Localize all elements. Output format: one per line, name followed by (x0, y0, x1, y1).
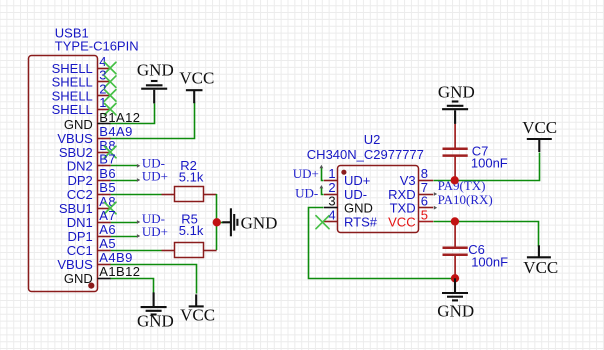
no-connect flag pin 3 (104, 76, 116, 88)
wire DN1 A7 to UD- (111, 222, 138, 224)
svg-text:CH340N_C2977777: CH340N_C2977777 (307, 147, 424, 162)
junction dot R2/R5/GND (213, 218, 221, 226)
no-connect flag pin 4 (104, 62, 116, 74)
wire CC1 A5 to R5 (111, 250, 162, 252)
U2 pin 8 V3 (400, 166, 434, 188)
svg-text:A7: A7 (99, 208, 116, 223)
svg-text:UD+: UD+ (142, 224, 168, 239)
svg-text:VBUS: VBUS (57, 131, 93, 146)
svg-text:DN2: DN2 (67, 159, 93, 174)
svg-text:4: 4 (328, 207, 335, 222)
U2 pin 3 GND (324, 194, 373, 216)
svg-text:VBUS: VBUS (57, 257, 93, 272)
net label arrow UD+ (B6) (137, 178, 140, 182)
IC U2 body (338, 166, 419, 233)
U2 pin 1 UD+ (324, 166, 370, 188)
pin SHELL 1 (USB1) (52, 95, 111, 117)
svg-text:UD-: UD- (295, 186, 318, 201)
capacitor C7 (443, 124, 468, 181)
pin SHELL 3 (USB1) (52, 68, 111, 90)
svg-text:B7: B7 (99, 152, 116, 167)
svg-text:GND: GND (137, 312, 174, 331)
resistor R5 (162, 243, 217, 258)
svg-text:A6: A6 (99, 222, 116, 237)
no-connect flag pin 1 (104, 103, 116, 115)
svg-text:VCC: VCC (180, 306, 215, 325)
svg-text:TYPE-C16PIN: TYPE-C16PIN (55, 38, 139, 53)
svg-text:A5: A5 (99, 236, 116, 251)
net label arrow PA10(RX) (434, 206, 437, 210)
power flag GND (top left) (137, 60, 174, 103)
svg-text:5.1k: 5.1k (179, 170, 204, 185)
junction dot at USB1 GND (88, 283, 94, 289)
U2 pin 5 VCC (388, 207, 433, 229)
wire U2 pin5 to VCC/C6 (434, 222, 539, 247)
pin VBUS B4A9 (USB1) (57, 124, 132, 146)
wire DP1 A6 to UD+ (111, 236, 138, 238)
power flag VCC (top right) (522, 118, 557, 152)
svg-text:B1A12: B1A12 (99, 110, 140, 125)
net label arrow PA9(TX) (434, 192, 437, 196)
svg-text:GND: GND (137, 60, 174, 79)
svg-text:CC1: CC1 (67, 243, 93, 258)
pin DN1 A7 (USB1) (67, 208, 116, 230)
svg-text:100nF: 100nF (471, 156, 508, 171)
net label arrow UD+ (U2.1) (320, 165, 324, 168)
svg-text:VCC: VCC (179, 69, 214, 88)
U2 pin-1 mark (341, 170, 346, 175)
junction dot VCC/C6 (451, 217, 459, 225)
power flag GND (bottom right) (437, 278, 474, 320)
wire VBUS B4A9 to top VCC (111, 103, 195, 139)
power flag VCC (bottom right) (523, 245, 558, 277)
svg-text:SBU1: SBU1 (59, 201, 93, 216)
svg-text:UD+: UD+ (142, 169, 168, 184)
wire U2 pin1 to UD+ (322, 167, 324, 181)
power flag GND (middle, sideways) (222, 208, 277, 236)
power flag GND (bottom left) (137, 292, 174, 330)
junction dot C6/GND wire (451, 274, 459, 282)
svg-text:CC2: CC2 (67, 187, 93, 202)
svg-text:B4A9: B4A9 (99, 124, 132, 139)
power flag VCC (top left) (179, 69, 214, 104)
pin SBU1 A8 (USB1) (59, 194, 116, 216)
no-connect flag pin A8 (104, 202, 116, 214)
svg-text:PA10(RX): PA10(RX) (438, 192, 493, 207)
net label arrow UD- (A7) (137, 220, 140, 224)
svg-text:GND: GND (438, 83, 475, 102)
no-connect flag pin 2 (104, 90, 116, 102)
no-connect flag pin B8 (104, 146, 116, 158)
wire GND B1A12 to top GND (111, 104, 155, 124)
net label arrow UD- (B7) (137, 164, 140, 168)
svg-text:SBU2: SBU2 (59, 145, 93, 160)
wire U2 pin8 to VCC/C7 (434, 153, 540, 181)
U2 pin 6 TXD (390, 194, 434, 216)
svg-text:A1B12: A1B12 (99, 264, 140, 279)
pin CC2 B5 (USB1) (67, 180, 116, 202)
pin DP2 B6 (USB1) (68, 166, 117, 188)
pin SHELL 2 (USB1) (52, 81, 111, 103)
power flag GND (top right) (438, 83, 475, 124)
U2 pin 4 RTS# (324, 207, 378, 229)
wire DP2 B6 to UD+ (111, 180, 138, 182)
net label arrow UD+ (A6) (137, 234, 140, 238)
pin GND A1B12 (USB1) (64, 264, 140, 286)
pin DP1 A6 (USB1) (68, 222, 117, 244)
wire CC2 B5 to R2 (111, 194, 162, 196)
U2 pin 2 UD- (324, 180, 367, 202)
wire R2 to R5 vertical (216, 194, 218, 250)
svg-text:B5: B5 (99, 180, 116, 195)
svg-text:GND: GND (64, 117, 93, 132)
pin GND B1A12 (USB1) (64, 110, 140, 132)
svg-text:100nF: 100nF (471, 254, 508, 269)
wire U2 pin3 GND loop (309, 208, 453, 279)
power flag VCC (bottom left) (180, 294, 215, 324)
svg-text:U2: U2 (364, 132, 381, 147)
svg-text:A4B9: A4B9 (99, 250, 132, 265)
svg-text:DN1: DN1 (67, 215, 93, 230)
pin SHELL 4 (USB1) (52, 54, 111, 76)
svg-text:RTS#: RTS# (344, 214, 378, 229)
svg-text:DP1: DP1 (68, 229, 93, 244)
svg-text:GND: GND (437, 302, 474, 321)
resistor R2 (162, 187, 217, 202)
svg-text:5: 5 (421, 207, 428, 222)
U2 pin 7 RXD (388, 180, 433, 202)
svg-text:VCC: VCC (522, 118, 557, 137)
junction dot V3/C7/VCC (451, 176, 459, 184)
wire VBUS A4B9 to bottom VCC (111, 265, 197, 294)
net label arrow UD- (U2.2) (320, 185, 324, 188)
svg-text:DP2: DP2 (68, 173, 93, 188)
pin DN2 B7 (USB1) (67, 152, 116, 174)
wire DN2 B7 to UD- (111, 165, 138, 167)
svg-text:GND: GND (241, 213, 278, 232)
connector USB1 body (29, 56, 98, 292)
pin SBU2 B8 (USB1) (59, 138, 116, 160)
no-connect flag U2 pin 4 (316, 216, 329, 229)
svg-text:VCC: VCC (388, 214, 415, 229)
wire junction to mid GND (217, 222, 224, 224)
wire GND A1B12 to bottom GND (111, 279, 154, 293)
svg-text:UD+: UD+ (293, 166, 319, 181)
svg-text:B6: B6 (99, 166, 116, 181)
svg-text:SHELL: SHELL (52, 102, 93, 117)
capacitor C6 (443, 221, 468, 278)
pin CC1 A5 (USB1) (67, 236, 116, 258)
svg-text:5.1k: 5.1k (179, 223, 204, 238)
svg-text:VCC: VCC (523, 258, 558, 277)
wire U2 pin2 to UD- (322, 187, 324, 195)
pin VBUS A4B9 (USB1) (57, 250, 132, 272)
svg-text:1: 1 (99, 95, 107, 110)
svg-text:GND: GND (64, 271, 93, 286)
